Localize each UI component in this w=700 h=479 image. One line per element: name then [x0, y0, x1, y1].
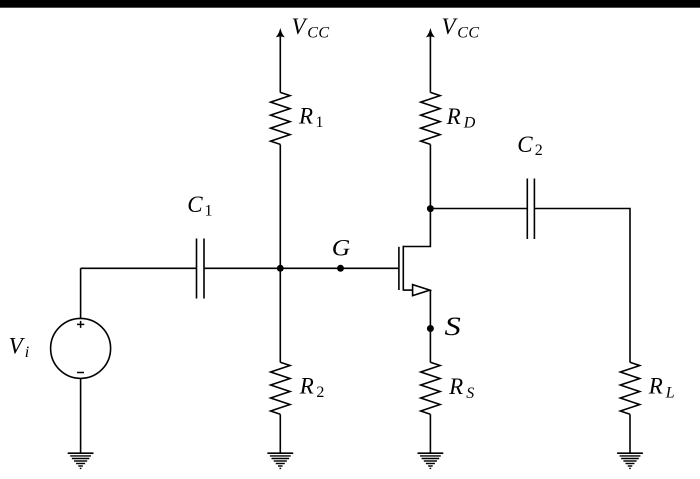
ground (RL) [617, 453, 643, 468]
svg-text:CC: CC [307, 25, 329, 42]
resistor R2 [271, 362, 290, 414]
resistor RD [421, 92, 440, 144]
svg-text:S: S [445, 312, 461, 341]
svg-text:2: 2 [535, 142, 543, 159]
wire R1 bottom to junction [279, 144, 281, 268]
svg-text:i: i [25, 344, 29, 361]
svg-text:R: R [298, 104, 313, 129]
resistor RS [421, 362, 440, 414]
power VCC arrow (left) [279, 30, 281, 93]
wire S to RS [429, 329, 431, 363]
svg-text:L: L [665, 384, 675, 401]
wire Vi bottom to ground [80, 378, 82, 453]
wire Vi top to gate wire [80, 268, 82, 318]
label VCC (left) [292, 14, 330, 41]
label RL [648, 373, 675, 401]
node S dot [427, 325, 434, 332]
label Vi [9, 334, 30, 361]
svg-text:1: 1 [205, 203, 213, 220]
svg-text:C: C [187, 192, 203, 217]
svg-text:2: 2 [316, 384, 324, 401]
capacitor C1 [196, 239, 198, 299]
wire C1 to gate [204, 267, 398, 269]
svg-text:S: S [466, 385, 474, 402]
svg-text:1: 1 [316, 114, 324, 131]
capacitor C2 [526, 179, 528, 240]
minus sign [77, 372, 84, 374]
wire R2 to ground [279, 414, 281, 453]
wire RS to ground [429, 414, 431, 453]
transistor M1 channel bar [402, 246, 404, 291]
junction node dot [277, 265, 284, 272]
label RD [446, 104, 476, 131]
ground (RS) [418, 453, 444, 468]
label VCC (right) [442, 14, 480, 41]
svg-text:D: D [463, 115, 476, 132]
source Vi circle [51, 318, 111, 378]
svg-text:R: R [446, 104, 461, 129]
node G dot [337, 265, 344, 272]
svg-text:G: G [332, 235, 351, 260]
wire drain to C2 [430, 208, 527, 210]
ground (R2) [267, 453, 293, 468]
transistor M1 gate bar [398, 247, 400, 290]
resistor R1 [271, 92, 290, 144]
svg-text:R: R [299, 374, 314, 399]
label RS [448, 374, 474, 402]
label R1 [298, 104, 324, 131]
svg-text:R: R [448, 374, 463, 399]
wire junction to R2 [279, 268, 281, 362]
wire C2 to RL corner [534, 209, 630, 363]
svg-text:CC: CC [457, 25, 479, 42]
drain node dot [427, 205, 434, 212]
transistor M1 source lead with arrow [403, 289, 412, 291]
label C1 [187, 192, 212, 220]
resistor RL [620, 362, 639, 414]
transistor M1 drain lead [403, 209, 430, 247]
svg-text:R: R [648, 373, 663, 398]
svg-text:C: C [517, 132, 533, 157]
label R2 [299, 374, 325, 401]
wire RL to ground [629, 414, 631, 453]
wire RD bottom to drain node [429, 144, 431, 208]
label C2 [517, 132, 543, 159]
power VCC arrow (right) [429, 30, 431, 93]
ground (Vi) [68, 453, 94, 468]
wire gate line left segment [81, 267, 197, 269]
plus sign [77, 321, 84, 328]
